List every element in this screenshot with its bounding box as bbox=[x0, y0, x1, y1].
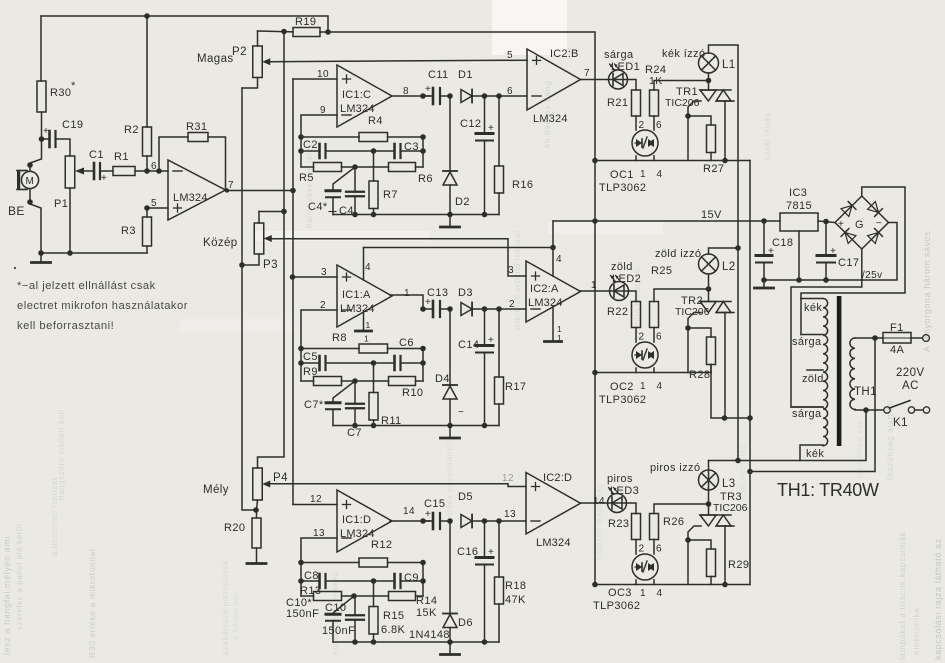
wire signal bus pin7 bbox=[292, 79, 294, 505]
capacitor C5 bbox=[320, 356, 326, 370]
wire IC3 to bridge + bbox=[818, 221, 835, 223]
wire bbox=[440, 308, 450, 310]
wire to opto pin6 bbox=[653, 540, 655, 555]
svg-text:OC3: OC3 bbox=[608, 587, 632, 599]
node output/C11 bbox=[420, 93, 426, 99]
svg-text:R19: R19 bbox=[295, 16, 316, 28]
wire bbox=[342, 166, 389, 168]
wire to opto pin2 bbox=[635, 540, 637, 555]
op-amp IC2:A bbox=[526, 261, 581, 322]
ground (D2) bbox=[441, 226, 460, 229]
svg-text:L3: L3 bbox=[722, 478, 736, 490]
node bus/rail ch3 bbox=[592, 582, 598, 588]
svg-text:Közép: Közép bbox=[203, 237, 238, 249]
svg-text:5: 5 bbox=[507, 50, 513, 61]
ground (C18) bbox=[755, 287, 774, 290]
wire gate riser bbox=[687, 116, 689, 161]
svg-text:7: 7 bbox=[228, 180, 234, 191]
resistor R31 bbox=[188, 133, 208, 142]
wire to opto pin6 bbox=[653, 328, 655, 343]
node R31 tap bbox=[156, 168, 162, 174]
diode D5 bbox=[461, 515, 472, 528]
svg-text:C16: C16 bbox=[457, 546, 478, 558]
whiteout streaks bbox=[492, 0, 567, 55]
wire C-star to rail bbox=[332, 409, 334, 425]
wire bbox=[484, 309, 486, 346]
wire R2 bottom bbox=[146, 156, 148, 171]
op-amp IC2:B bbox=[527, 49, 581, 110]
node R1/R2 bbox=[144, 168, 150, 174]
wire R7 to rail bbox=[373, 634, 375, 642]
ground (D6) bbox=[441, 653, 460, 656]
wire bbox=[498, 404, 500, 426]
svg-text:TH1: TH1 bbox=[854, 386, 877, 398]
node 15V/C18 bbox=[761, 218, 767, 224]
wire bbox=[498, 193, 500, 215]
node MT1 rail ch1 bbox=[722, 158, 728, 164]
wire to comparator input bbox=[472, 95, 526, 97]
svg-text:C3: C3 bbox=[404, 141, 419, 153]
svg-text:R15: R15 bbox=[383, 610, 404, 622]
wire bbox=[301, 348, 359, 350]
svg-text:C15: C15 bbox=[424, 498, 445, 510]
svg-text:hangfrekvencia jelek: hangfrekvencia jelek bbox=[305, 143, 314, 228]
svg-text:R30: R30 bbox=[50, 87, 71, 99]
wire to microphone bbox=[30, 139, 42, 171]
bridge rectifier G bbox=[835, 196, 889, 249]
capacitor C3 bbox=[395, 144, 401, 158]
svg-text:2: 2 bbox=[509, 299, 515, 310]
svg-text:14: 14 bbox=[593, 496, 605, 507]
led LED2 bbox=[610, 276, 629, 301]
wire to op-amp pin 5 bbox=[147, 207, 168, 209]
wire to R7 bbox=[373, 363, 375, 393]
wire bbox=[401, 150, 423, 152]
svg-text:M: M bbox=[26, 176, 34, 187]
wire P2 top link to R19 bbox=[258, 30, 294, 33]
wire mic bottom to ground rail bbox=[30, 189, 41, 253]
svg-text:4A: 4A bbox=[890, 344, 905, 356]
op-amp IC1:D bbox=[337, 490, 392, 552]
wire bbox=[498, 521, 500, 577]
svg-text:47K: 47K bbox=[505, 594, 526, 606]
node output/C15 bbox=[420, 518, 426, 524]
wire R19 node to OC supply bus bbox=[328, 32, 595, 585]
svg-text:+: + bbox=[830, 246, 836, 257]
svg-text:L1: L1 bbox=[722, 59, 736, 71]
ground (mic section) bbox=[32, 261, 51, 264]
wire R31 right to output bbox=[208, 137, 226, 190]
wire filter ground rail bbox=[333, 425, 499, 427]
svg-text:−: − bbox=[458, 407, 464, 418]
node gnd rail/IC3 bbox=[796, 277, 802, 283]
resistor R7 bbox=[369, 181, 378, 209]
wire MT2 bbox=[708, 81, 710, 91]
wire IC2:A pin 4 riser bbox=[552, 221, 554, 276]
capacitor C7 bbox=[346, 404, 364, 409]
svg-text:+: + bbox=[488, 123, 494, 134]
transformer TH1 primary winding bbox=[850, 338, 855, 409]
wire to opto pin2 bbox=[635, 328, 637, 343]
svg-text:sárga: sárga bbox=[604, 49, 634, 61]
wire IC2:B output to LED1 bbox=[581, 79, 609, 81]
svg-text:1: 1 bbox=[640, 588, 646, 599]
diode D4 bbox=[443, 385, 457, 399]
svg-text:10: 10 bbox=[317, 69, 329, 80]
svg-text:R10: R10 bbox=[402, 387, 423, 399]
wire bbox=[301, 580, 319, 582]
svg-text:TLP3062: TLP3062 bbox=[599, 182, 646, 194]
wire opto pin1 bbox=[635, 580, 637, 585]
node lamp bus / rail bbox=[735, 458, 741, 464]
node lamp bus L2 bbox=[735, 245, 741, 251]
node gnd rail/C17 bbox=[823, 277, 829, 283]
svg-text:6: 6 bbox=[656, 332, 662, 343]
resistor R9 bbox=[314, 377, 342, 386]
wire P3 top link bbox=[259, 211, 284, 213]
lamp L1 bbox=[699, 53, 719, 73]
svg-text:R17: R17 bbox=[505, 381, 526, 393]
node C-star bbox=[352, 164, 358, 170]
wire lamp to MT2 bbox=[708, 73, 710, 81]
svg-text:sárga: sárga bbox=[792, 408, 822, 420]
svg-text:TIC206: TIC206 bbox=[665, 97, 700, 109]
wire gate riser bbox=[687, 328, 689, 373]
wire ground stub bbox=[40, 253, 42, 262]
wire to C bbox=[354, 167, 356, 192]
svg-text:R1: R1 bbox=[114, 151, 129, 163]
wire bbox=[484, 521, 486, 558]
svg-text:C11: C11 bbox=[428, 69, 449, 81]
capacitor C16 bbox=[476, 547, 494, 565]
microphone M bbox=[17, 170, 39, 190]
node gate ch1 bbox=[685, 113, 691, 119]
svg-text:C12: C12 bbox=[460, 118, 481, 130]
svg-text:BE: BE bbox=[8, 204, 25, 218]
wire IC1:C output bbox=[392, 95, 430, 97]
triac TR1 bbox=[700, 90, 734, 101]
wire kek bottom to lamp rail bbox=[800, 445, 823, 461]
optocoupler OC1 bbox=[632, 130, 658, 156]
node MT2 ch1 bbox=[706, 78, 712, 84]
resistor R28 bbox=[707, 337, 716, 365]
svg-text:4: 4 bbox=[657, 381, 663, 392]
wire bbox=[498, 96, 500, 166]
svg-text:R18: R18 bbox=[505, 580, 526, 592]
wire bbox=[449, 399, 451, 426]
resistor R12 bbox=[359, 558, 388, 567]
node C-star bbox=[351, 593, 357, 599]
wire C1 to R1 bbox=[100, 170, 113, 172]
wire L3 top bbox=[708, 461, 710, 491]
svg-text:zöld: zöld bbox=[611, 261, 633, 273]
wire IC3 common to ground rail bbox=[798, 231, 800, 280]
op-amp IC1:A bbox=[337, 265, 392, 327]
wire ground rail to bridge minus bbox=[764, 223, 897, 281]
wire bbox=[301, 595, 314, 597]
svg-text:a három sáv: a három sáv bbox=[231, 592, 240, 640]
svg-text:12: 12 bbox=[310, 494, 322, 505]
wire IC2:A pin 11 ground bbox=[552, 307, 554, 341]
svg-text:lesz a hangfal mélyén ami: lesz a hangfal mélyén ami bbox=[2, 536, 12, 655]
wire bbox=[449, 628, 451, 643]
led LED3 bbox=[608, 488, 627, 513]
svg-text:TLP3062: TLP3062 bbox=[599, 394, 646, 406]
svg-text:hálózati feszültség: hálózati feszültség bbox=[595, 483, 604, 560]
wire opto pin4 bbox=[653, 156, 655, 161]
capacitor C17 bbox=[817, 246, 836, 263]
wire bbox=[301, 362, 319, 364]
capacitor C15 bbox=[425, 509, 440, 529]
wire bbox=[484, 141, 486, 215]
capacitor C11 bbox=[425, 84, 440, 104]
svg-text:IC2:D: IC2:D bbox=[543, 472, 572, 484]
wire bbox=[449, 185, 451, 215]
svg-text:R27: R27 bbox=[703, 163, 724, 175]
node 15V/OC bus bbox=[592, 218, 598, 224]
wire MT1 rail to fuse node bbox=[750, 338, 875, 472]
svg-text:R25: R25 bbox=[651, 265, 672, 277]
svg-text:C19: C19 bbox=[62, 119, 83, 131]
wire bbox=[301, 562, 359, 564]
optocoupler OC2 bbox=[632, 342, 658, 368]
wire left node bbox=[300, 563, 302, 597]
wire secondary tap zold bbox=[807, 369, 823, 371]
node bus/rail ch2 bbox=[592, 370, 598, 376]
svg-text:C1: C1 bbox=[89, 149, 104, 161]
transformer TH1 secondary winding bbox=[823, 299, 828, 446]
svg-text:LM324: LM324 bbox=[533, 113, 568, 125]
wire opto pin4 bbox=[653, 580, 655, 585]
svg-text:1N4148: 1N4148 bbox=[409, 629, 450, 641]
svg-text:C10: C10 bbox=[325, 602, 346, 614]
svg-text:G: G bbox=[855, 219, 864, 231]
wire secondary tap kek top bbox=[801, 298, 823, 300]
svg-text:C18: C18 bbox=[772, 237, 793, 249]
svg-text:a bemeneti fokozat: a bemeneti fokozat bbox=[50, 477, 59, 556]
node P3 bottom bbox=[239, 262, 245, 268]
wire C19 left lead bbox=[42, 138, 51, 140]
wire bbox=[326, 362, 394, 364]
svg-text:R14: R14 bbox=[416, 595, 437, 607]
op-amp IC1 preamp bbox=[168, 160, 226, 220]
node ground rail / P1 bbox=[67, 250, 73, 256]
wire R gate bottom bbox=[710, 577, 712, 585]
resistor R2 bbox=[143, 127, 152, 156]
wire ground stub bbox=[449, 642, 451, 654]
svg-text:6: 6 bbox=[507, 86, 513, 97]
svg-text:R6: R6 bbox=[418, 173, 433, 185]
node fuse bbox=[872, 335, 878, 341]
wire P4 wiper to IC2:D pin 12 bbox=[266, 484, 526, 487]
wire C17 top bbox=[825, 222, 827, 256]
capacitor C6 bbox=[395, 356, 401, 370]
wire right node bbox=[422, 137, 424, 167]
svg-text:7815: 7815 bbox=[786, 200, 812, 212]
regulator IC3 7815 bbox=[780, 213, 818, 231]
wire bbox=[440, 520, 450, 522]
wire R1 to op-amp pin 6 bbox=[135, 170, 168, 172]
wire primary bottom bbox=[855, 409, 866, 411]
svg-text:OC2: OC2 bbox=[610, 381, 634, 393]
node bus / IC1:A pin3 bbox=[290, 274, 296, 280]
svg-text:*: * bbox=[71, 80, 76, 92]
svg-text:C9: C9 bbox=[404, 572, 419, 584]
wire filter ground rail bbox=[333, 641, 499, 643]
wire TR2 MT1 bbox=[724, 313, 726, 419]
svg-text:R8: R8 bbox=[332, 332, 347, 344]
svg-text:1: 1 bbox=[640, 169, 646, 180]
svg-text:C14: C14 bbox=[458, 339, 479, 351]
svg-text:a dióda egyenirányító: a dióda egyenirányító bbox=[445, 436, 454, 525]
svg-text:R16: R16 bbox=[512, 179, 533, 191]
node R19 right bbox=[325, 29, 331, 35]
svg-text:2: 2 bbox=[639, 332, 645, 343]
wire R31 left bbox=[159, 137, 188, 171]
ground (IC1:A pin 11) bbox=[356, 330, 372, 333]
svg-text:F1: F1 bbox=[890, 322, 904, 334]
wire to opto pin6 bbox=[653, 116, 655, 130]
wire bbox=[484, 96, 486, 134]
svg-text:LM324: LM324 bbox=[173, 192, 208, 204]
svg-text:6.8K: 6.8K bbox=[381, 624, 405, 636]
wire MT2 bbox=[708, 504, 710, 515]
svg-text:+: + bbox=[488, 335, 494, 346]
node shunt diode bbox=[447, 306, 453, 312]
svg-text:piros izzó: piros izzó bbox=[650, 462, 700, 474]
svg-text:electret mikrofon használatako: electret mikrofon használatakor bbox=[17, 300, 188, 312]
resistor R1 bbox=[113, 167, 135, 176]
wire R2 top riser bbox=[146, 16, 148, 127]
svg-text:C2: C2 bbox=[303, 139, 318, 151]
svg-text:C13: C13 bbox=[427, 287, 448, 299]
wire into series cap bbox=[423, 520, 433, 522]
svg-text:LED1: LED1 bbox=[611, 61, 640, 73]
svg-text:mikrofon erősítő fokozat: mikrofon erősítő fokozat bbox=[513, 230, 522, 330]
svg-text:4: 4 bbox=[657, 169, 663, 180]
svg-text:kék ízzó: kék ízzó bbox=[662, 48, 706, 60]
node pin 5 bbox=[144, 205, 150, 211]
resistor R27 bbox=[707, 125, 716, 153]
resistor R5 bbox=[314, 163, 342, 172]
svg-text:P3: P3 bbox=[263, 259, 278, 271]
wire R7 to rail bbox=[373, 420, 375, 426]
resistor R3 bbox=[143, 217, 152, 246]
wire ch2 opto rail bbox=[595, 372, 711, 374]
node top rail / R2 bbox=[144, 13, 150, 19]
wire secondary box side bbox=[800, 299, 802, 335]
wire bbox=[416, 595, 424, 597]
capacitor C12 bbox=[476, 123, 494, 141]
wire lamp to MT2 bbox=[708, 274, 710, 289]
wire bbox=[498, 309, 500, 377]
svg-text:LM324: LM324 bbox=[340, 303, 375, 315]
svg-text:IC1:A: IC1:A bbox=[342, 289, 371, 301]
svg-text:R7: R7 bbox=[383, 189, 398, 201]
potentiometer P2 bbox=[253, 46, 271, 78]
svg-text:R5: R5 bbox=[299, 172, 314, 184]
svg-text:+: + bbox=[425, 509, 431, 520]
svg-text:4: 4 bbox=[365, 262, 371, 273]
wire IC1:A output bbox=[390, 295, 423, 309]
svg-text:14: 14 bbox=[403, 506, 415, 517]
wire diagonal to C-star bbox=[333, 167, 355, 191]
op-amp IC1:C bbox=[337, 65, 392, 127]
wire bbox=[301, 380, 314, 382]
wire ch1 opto rail bbox=[595, 160, 750, 162]
stray dot bbox=[14, 267, 16, 269]
svg-text:+: + bbox=[838, 219, 844, 230]
node ground rail / mic bbox=[38, 250, 44, 256]
svg-text:LM324: LM324 bbox=[340, 103, 375, 115]
wire top supply rail bbox=[41, 16, 328, 32]
wire TR1 MT1 bbox=[724, 101, 726, 161]
svg-text:AC: AC bbox=[902, 380, 919, 392]
node P3 top tap bbox=[281, 209, 287, 215]
wire IC2:A output to LED2 bbox=[581, 290, 610, 292]
wire IC1:D output bbox=[390, 520, 430, 522]
node shunt diode bbox=[447, 518, 453, 524]
wire primary top bbox=[855, 337, 875, 339]
wire bbox=[498, 604, 500, 642]
svg-text:D3: D3 bbox=[458, 287, 473, 299]
wire to R20 bbox=[256, 510, 258, 518]
svg-text:szaki leírás: szaki leírás bbox=[763, 113, 772, 160]
node output/R31 bbox=[225, 188, 229, 192]
node output/C13 bbox=[420, 306, 426, 312]
wire secondary tap sarga lower bbox=[791, 406, 823, 408]
wire P2 bottom bbox=[242, 78, 258, 89]
node C-star bbox=[352, 378, 358, 384]
svg-text:C17: C17 bbox=[838, 257, 859, 269]
wire lamp bus from L1 top bbox=[709, 45, 739, 461]
wire left rail to R30 bbox=[40, 16, 42, 81]
wire ground stub bbox=[449, 426, 451, 438]
svg-text:R23: R23 bbox=[608, 518, 629, 530]
wire bbox=[342, 595, 389, 597]
svg-text:6: 6 bbox=[656, 544, 662, 555]
wire bbox=[449, 96, 451, 171]
resistor R15 bbox=[369, 607, 378, 635]
svg-text:D4: D4 bbox=[435, 373, 450, 385]
wire C18 top bbox=[763, 221, 765, 256]
svg-text:5: 5 bbox=[151, 198, 157, 209]
resistor R25 bbox=[650, 302, 659, 328]
resistor R17 bbox=[495, 377, 504, 404]
svg-text:*−al jelzett ellnállást csak: *−al jelzett ellnállást csak bbox=[17, 280, 156, 292]
resistor R22 bbox=[632, 302, 641, 328]
node bus / preamp out bbox=[290, 188, 296, 194]
svg-text:izzólámpa sor: izzólámpa sor bbox=[855, 421, 864, 478]
wire gate to R gate bbox=[688, 116, 711, 125]
capacitor C4 bbox=[346, 192, 364, 197]
svg-text:7: 7 bbox=[584, 68, 590, 79]
wire R gate bottom bbox=[710, 153, 712, 161]
svg-text:LM324: LM324 bbox=[340, 528, 375, 540]
wire C18 bottom bbox=[763, 263, 765, 281]
svg-text:LM324: LM324 bbox=[528, 297, 563, 309]
wire opto pin1 bbox=[635, 156, 637, 161]
resistor R26 bbox=[650, 514, 659, 540]
svg-text:R20: R20 bbox=[224, 522, 245, 534]
wire pin 9 feedback bbox=[301, 115, 337, 137]
wire IC1:A pin 11 to ground bbox=[363, 311, 365, 331]
wire bbox=[326, 150, 394, 152]
capacitor C10* bbox=[326, 614, 340, 621]
wire left node bbox=[300, 137, 302, 167]
wire gate riser bbox=[687, 540, 689, 585]
wire R gate bottom bbox=[710, 365, 712, 373]
